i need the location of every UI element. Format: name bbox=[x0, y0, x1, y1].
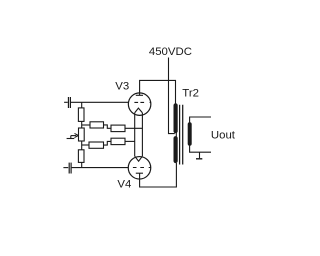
tube V4 envelope bbox=[128, 157, 151, 180]
tube V3 grid dashes bbox=[134, 101, 151, 103]
wire R2 to bottom rail bbox=[81, 162, 83, 167]
resistor R1 (upper divider) bbox=[78, 108, 84, 122]
wire R6 to left cathode line bbox=[125, 140, 135, 142]
wire R1 to pot bbox=[81, 121, 83, 128]
transformer Tr2 core bbox=[180, 105, 183, 165]
wire C2 to V4 grid bbox=[72, 167, 129, 169]
tube V3 cathode bbox=[135, 108, 143, 113]
resistor R5 (row B left) bbox=[89, 142, 104, 148]
wire cathode right V3 to V4 bbox=[141, 113, 143, 156]
potentiometer P1 body bbox=[79, 128, 85, 141]
tube V4 cathode bbox=[135, 156, 143, 161]
svg-text:Tr2: Tr2 bbox=[182, 88, 199, 100]
transformer Tr2 winding neck at centre tap bbox=[175, 131, 177, 139]
svg-text:Uout: Uout bbox=[211, 130, 236, 142]
svg-text:450VDC: 450VDC bbox=[149, 46, 192, 58]
wire HT supply vertical from 450VDC label down to centre tap bbox=[169, 58, 175, 134]
wire cathode left V3 to V4 bbox=[134, 113, 136, 156]
wire V4 anode to primary bottom bbox=[140, 163, 177, 187]
transformer Tr2 primary bottom winding bbox=[174, 138, 178, 161]
tube V3 anode plate bbox=[136, 94, 143, 96]
resistor R3 (row A left) bbox=[90, 122, 104, 128]
wire R5 to R6 jog bbox=[104, 141, 112, 145]
wire pot to R2 bbox=[81, 141, 83, 150]
svg-text:V4: V4 bbox=[117, 178, 131, 190]
wire row A from chain bbox=[82, 124, 90, 126]
potentiometer P1 wiper arrow bbox=[67, 133, 79, 138]
wire top rail V3 anode to primary top bbox=[140, 80, 176, 103]
resistor R6 (row B right) bbox=[111, 138, 125, 144]
transformer Tr2 primary top winding bbox=[174, 105, 178, 131]
tube V3 envelope bbox=[128, 93, 151, 116]
wire row B from chain bbox=[82, 144, 89, 146]
wire secondary bottom bbox=[190, 146, 211, 153]
capacitor C1 (top left coupling cap) bbox=[64, 97, 70, 108]
tube V4 grid dashes bbox=[133, 167, 151, 169]
svg-text:V3: V3 bbox=[115, 81, 129, 93]
wire secondary top to output bbox=[190, 117, 211, 123]
wire junction chain top bbox=[81, 102, 83, 108]
transformer Tr2 secondary winding bbox=[188, 124, 192, 144]
wire C1 to V3 grid bbox=[71, 101, 129, 103]
resistor R4 (row A right) bbox=[111, 125, 125, 132]
wire R3 to R4 jog bbox=[104, 125, 112, 128]
capacitor C2 (bottom left coupling cap) bbox=[63, 163, 71, 174]
ground bbox=[196, 152, 202, 159]
tube V4 anode plate bbox=[136, 172, 143, 174]
resistor R2 (lower divider) bbox=[78, 150, 84, 163]
wire R4 to right cathode line bbox=[125, 127, 142, 129]
